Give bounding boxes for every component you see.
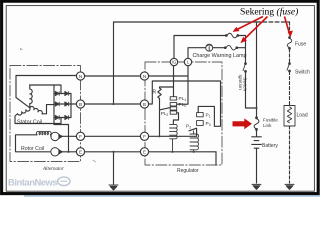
terminal E (regulator) <box>140 148 148 156</box>
ground (load) <box>285 184 294 189</box>
svg-text:N: N <box>79 74 82 79</box>
junction regulator coil/E wire <box>193 151 195 153</box>
wire F into regulator <box>149 135 197 137</box>
wire rotor coil to brush F <box>50 135 53 136</box>
svg-text:Rotor Coil: Rotor Coil <box>21 146 44 152</box>
wire N (alternator N to regulator N) <box>85 75 141 77</box>
scan speckle 2 <box>93 160 97 162</box>
wire regulator case ground <box>215 152 217 165</box>
terminal F (regulator) <box>140 132 148 140</box>
wire PL2 to relay coil <box>173 113 178 124</box>
stator coil phase B (lower-left winding) <box>17 108 30 115</box>
ignition switch contact <box>243 63 246 73</box>
svg-text:N: N <box>143 74 146 79</box>
contact PL1 <box>170 97 177 100</box>
wire phase B to rectifier bottom entry <box>15 114 61 124</box>
wire top supply rail <box>114 21 257 23</box>
rectifier right rail <box>70 94 72 118</box>
regulator IG drop wire <box>173 66 175 97</box>
terminal B (regulator) <box>140 100 148 108</box>
rectifier row1 wire <box>54 93 71 95</box>
wire ignition switch to junction <box>246 72 257 108</box>
svg-text:Switch: Switch <box>295 70 310 76</box>
rectifier row2 wire <box>54 103 71 105</box>
rotor field loop wire <box>16 135 51 152</box>
terminal IG (regulator top) <box>170 58 177 65</box>
diode D5 <box>55 115 59 119</box>
diode D4 <box>65 102 69 106</box>
battery feed wire <box>256 22 258 118</box>
annotation arrow to fuse F3 <box>285 17 293 37</box>
stator neutral wire to N <box>16 76 76 108</box>
wire L terminal to lamp <box>188 48 206 59</box>
svg-text:F: F <box>79 134 82 139</box>
svg-text:Switch: Switch <box>242 77 248 91</box>
voltage relay coil <box>170 124 178 151</box>
wire brush F to terminal F <box>60 135 77 137</box>
rectifier left rail <box>53 85 55 125</box>
regulator enclosure box <box>145 62 222 165</box>
svg-text:Sekering (fuse): Sekering (fuse) <box>240 6 298 17</box>
junction N wire/IG drop <box>172 75 174 77</box>
regulator B riser wire <box>148 81 221 126</box>
svg-text:B: B <box>143 102 146 107</box>
battery <box>252 137 262 148</box>
stator coil phase A (vertical winding) <box>30 85 32 108</box>
wire lamp to fuse F2 <box>213 47 225 49</box>
annotation arrow to fuse F1 <box>233 17 263 32</box>
rectifier row3 wire <box>54 117 71 119</box>
inner frame <box>6 6 314 192</box>
svg-text:Battery: Battery <box>262 143 278 149</box>
wire rectifier output to B terminal <box>71 103 76 105</box>
svg-text:R: R <box>153 90 157 96</box>
resistor R <box>158 87 174 136</box>
wire fuse F1 to ignition switch line <box>239 35 246 37</box>
fusible link <box>254 117 259 130</box>
diode D1 <box>55 91 59 95</box>
svg-text:E: E <box>143 150 146 155</box>
terminal F (alternator) <box>76 132 84 140</box>
junction relay coil/E wire <box>171 151 173 153</box>
terminal L (regulator top) <box>184 58 191 65</box>
switch (load circuit) <box>287 63 290 72</box>
terminal N (regulator) <box>140 72 148 80</box>
rotor coil winding <box>36 131 51 134</box>
wire fuse F3 to switch <box>289 49 291 63</box>
junction battery/ignition <box>255 107 257 109</box>
svg-text:Fusible: Fusible <box>263 118 278 123</box>
ground (battery) <box>252 184 261 189</box>
load (resistive box) <box>284 106 295 127</box>
svg-text:Stator Coil: Stator Coil <box>17 120 42 126</box>
wire E (alternator E to regulator E) <box>85 151 141 153</box>
terminal B (alternator) <box>76 100 84 108</box>
charge warning lamp <box>206 44 213 51</box>
svg-text:Regulator: Regulator <box>177 168 199 174</box>
junction rectifier negative/E <box>67 151 69 153</box>
svg-text:Charge Warning Lamp: Charge Warning Lamp <box>193 53 247 59</box>
wire IG terminal to fuse row <box>174 36 226 59</box>
contact PL2 <box>170 111 177 114</box>
contact PL0b <box>170 107 177 110</box>
wire switch to load <box>289 72 291 106</box>
contact P1 <box>197 113 204 117</box>
diode D3 <box>55 102 59 106</box>
bottom page strip <box>24 195 320 197</box>
wire fusible link to battery <box>256 130 258 137</box>
svg-text:IG: IG <box>172 60 176 65</box>
wire top rail dashed to load line <box>257 21 290 23</box>
fuse F3 (load circuit) <box>287 37 292 50</box>
svg-text:Alternator: Alternator <box>42 167 64 172</box>
diode D6 <box>65 115 69 119</box>
scan speckle 1 <box>20 48 23 50</box>
wire phase C to rectifier middle entry <box>42 105 54 114</box>
ignition switch feed wire <box>245 36 247 64</box>
svg-text:Fuse: Fuse <box>295 42 306 48</box>
brush (E side) <box>51 148 62 156</box>
regulator N feed wire <box>148 75 189 77</box>
wire fuse F2 to ignition switch line <box>238 47 246 49</box>
svg-text:Link: Link <box>263 123 272 128</box>
wire brush E to terminal E <box>60 151 77 153</box>
contact arm P2 <box>189 128 197 136</box>
wire rectifier negative to E <box>54 125 69 152</box>
junction B riser/B wire <box>112 103 114 105</box>
wire B riser to top rail <box>113 22 115 104</box>
voltage regulator coil <box>190 131 199 152</box>
junction R bottom/F wire <box>158 135 160 137</box>
diode D2 <box>65 91 69 95</box>
terminal E (alternator) <box>76 148 84 156</box>
terminal N (alternator) <box>76 72 84 80</box>
wire load to ground dashed <box>289 126 291 183</box>
outer frame <box>2 1 319 193</box>
stator coil phase C (lower-right winding) <box>30 107 43 114</box>
fuse F1 (IG circuit) <box>225 33 238 38</box>
wire battery to ground <box>256 148 258 183</box>
wire phase A to rectifier top <box>30 85 61 94</box>
svg-text:Load: Load <box>297 113 308 119</box>
contact P0 <box>197 121 204 126</box>
load branch dashed drop <box>289 22 291 37</box>
wire E drop to ground <box>113 152 115 184</box>
wire P1 feed bracket <box>198 106 214 126</box>
wire B (alternator B to regulator B) <box>85 103 141 105</box>
svg-text:BintanNews: BintanNews <box>8 176 57 187</box>
regulator L drop wire <box>177 66 188 105</box>
wire E inside regulator <box>149 151 217 153</box>
fuse F2 (lamp circuit) <box>224 45 237 50</box>
svg-text:F: F <box>143 134 146 139</box>
svg-text:E: E <box>79 150 82 155</box>
svg-text:B: B <box>79 102 82 107</box>
contact arm PL <box>160 108 170 110</box>
wire F (alternator F to regulator F) <box>85 135 141 137</box>
junction E drop/E wire <box>112 151 114 153</box>
annotation arrow to fuse F2 <box>241 17 268 43</box>
alternator enclosure box <box>10 66 81 162</box>
annotation arrow to fusible link <box>233 118 253 129</box>
ground (alternator E) <box>109 185 118 190</box>
brush (F side) <box>51 132 62 140</box>
contact PL0 <box>170 103 177 106</box>
